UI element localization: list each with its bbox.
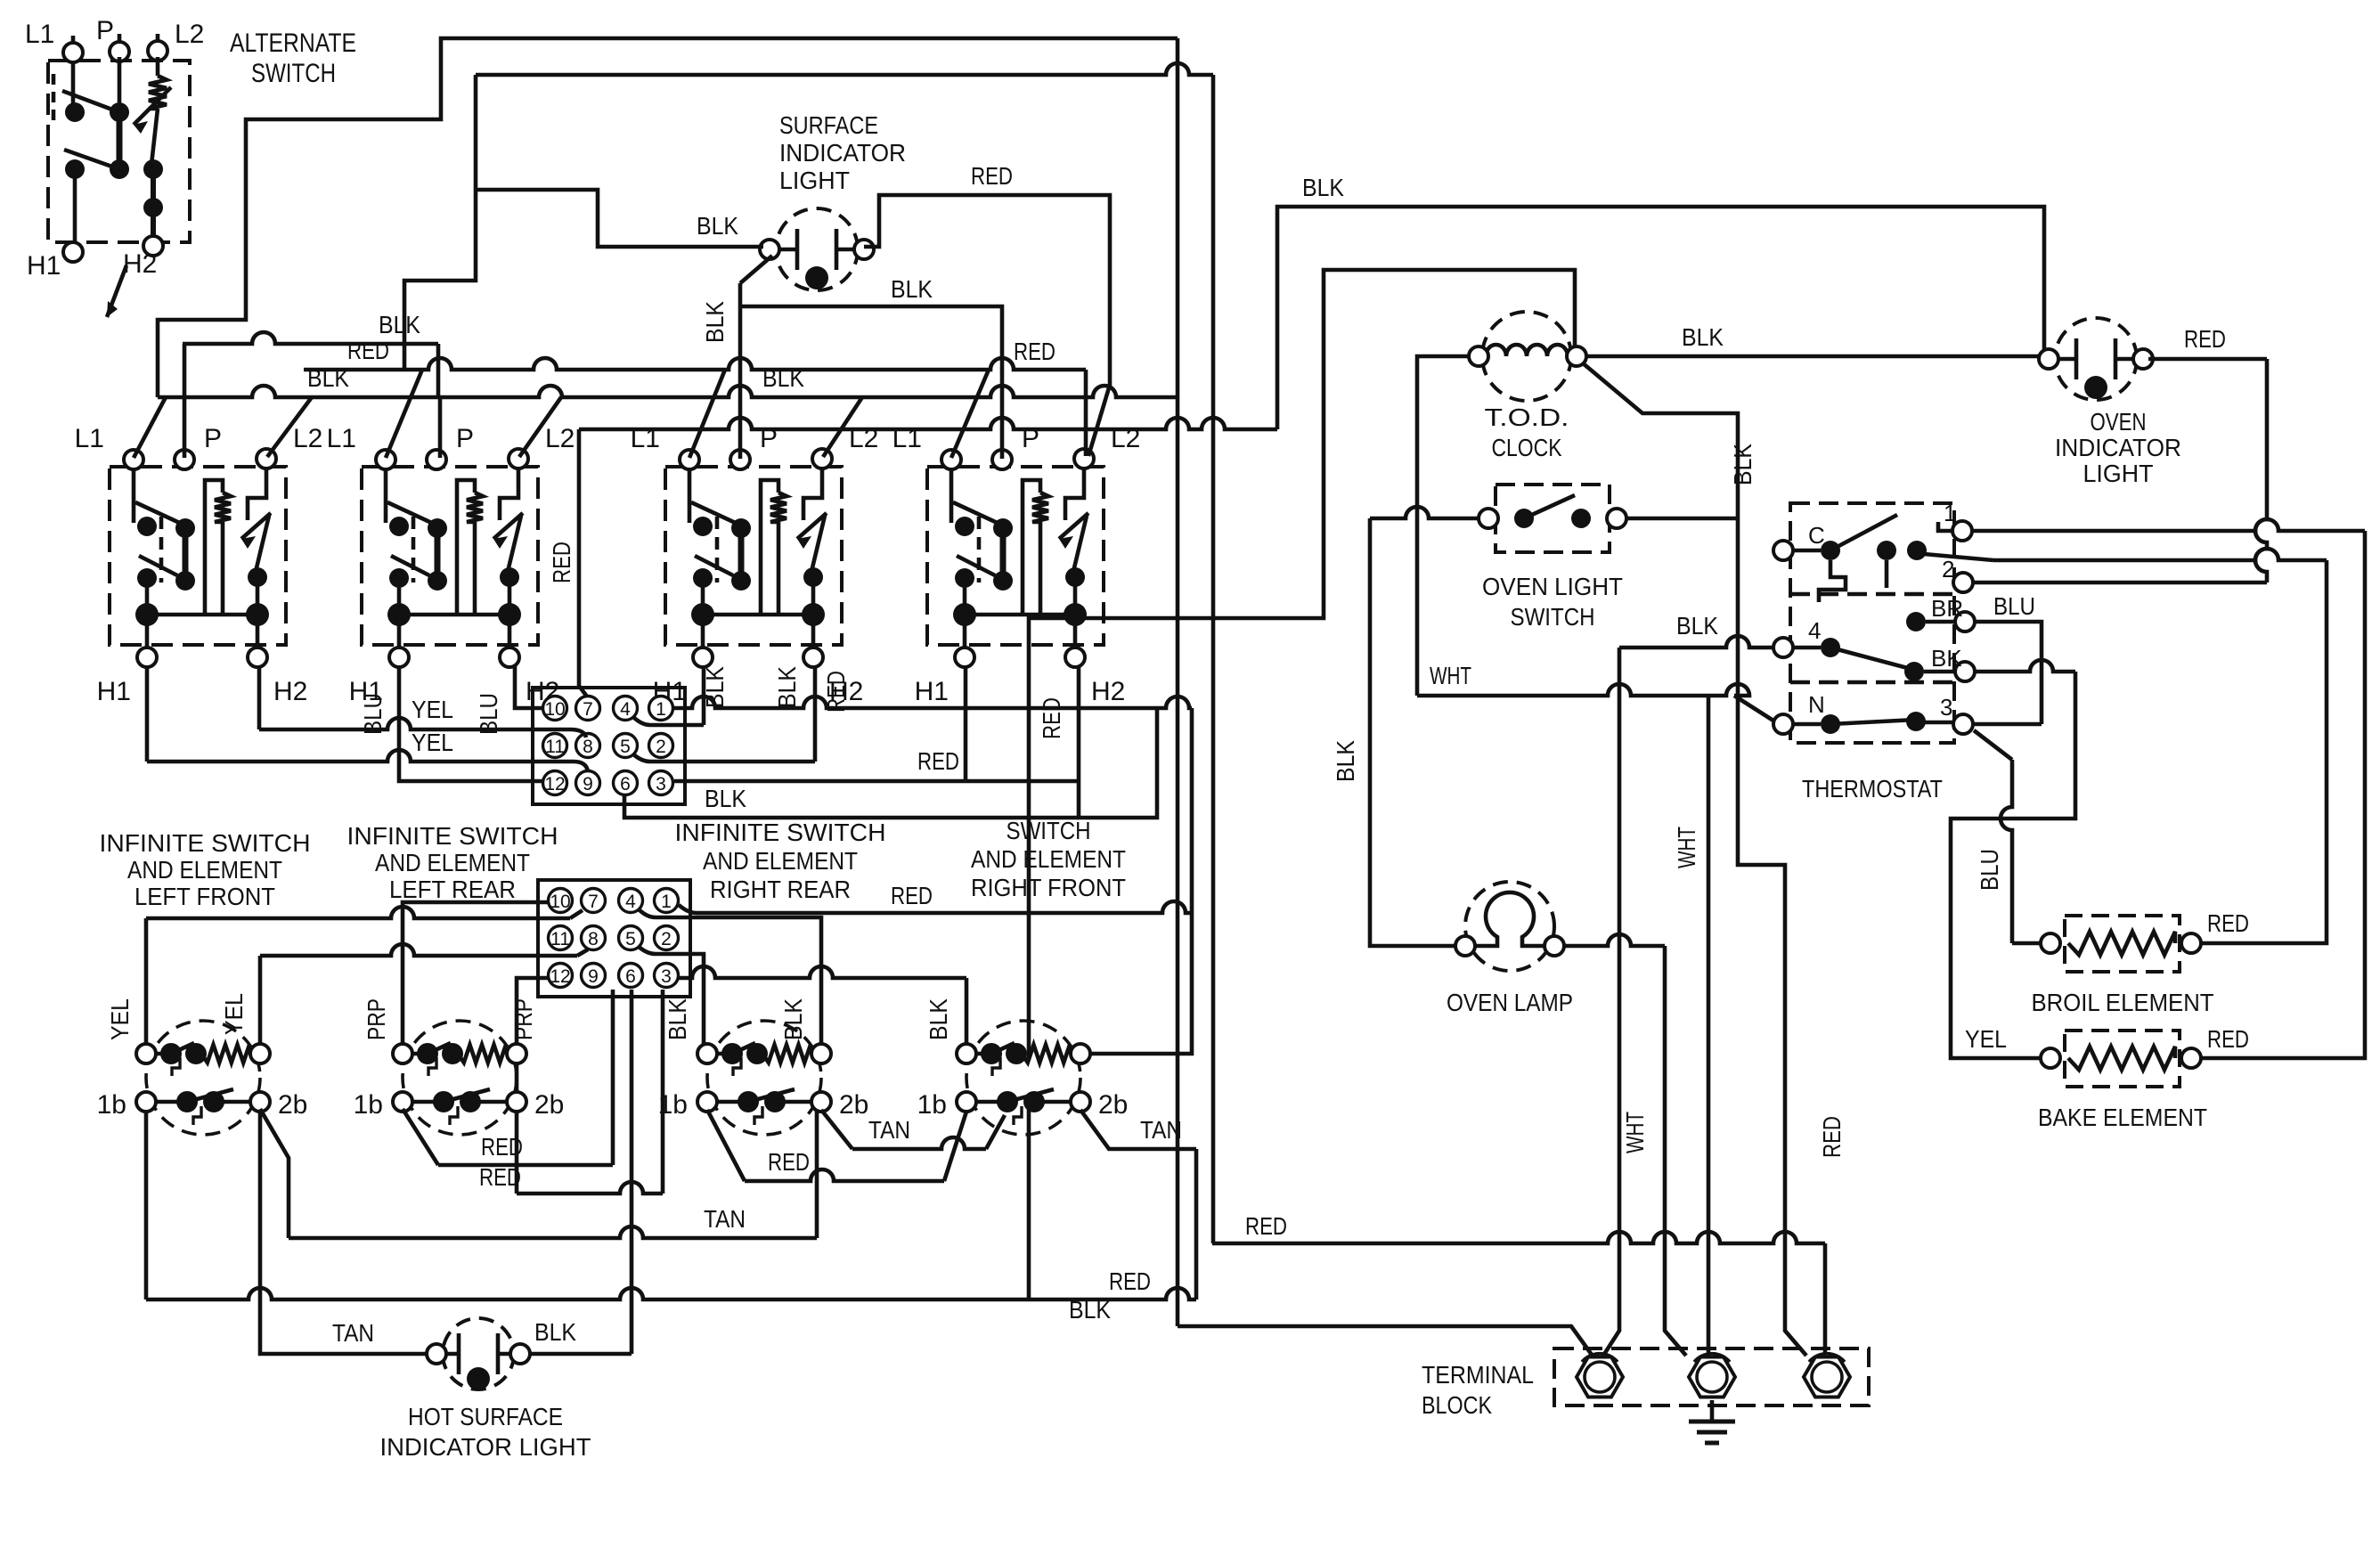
wire RED drop to pin 7 of connector 1: [579, 429, 587, 697]
label BLK vertical: [664, 998, 691, 1040]
svg-text:BLK: BLK: [1682, 323, 1724, 351]
svg-text:PRP: PRP: [509, 998, 537, 1040]
label BLK: [697, 212, 738, 240]
wire: short BLK bus y=386 (P of SW1 feed): [183, 332, 438, 458]
surface switch terminal labels L1 P L2 H1 H2: [75, 424, 1141, 706]
wire BLK y=232 from riser to oven indicator light: [1277, 207, 2044, 429]
label SWITCH AND ELEMENT RIGHT FRONT: [971, 817, 1126, 901]
svg-text:RED: RED: [479, 1163, 521, 1191]
svg-text:BROIL ELEMENT: BROIL ELEMENT: [2032, 989, 2214, 1016]
wire v1 BLK down to terminal block nut1: [1603, 648, 1619, 1356]
label RED: [1109, 1267, 1151, 1295]
svg-text:YEL: YEL: [412, 696, 453, 723]
svg-text:RED: RED: [971, 162, 1013, 190]
label PRP vertical: [509, 998, 537, 1040]
hot surface indicator light: [427, 1318, 530, 1390]
surface indicator light: [760, 208, 874, 290]
wire TAN: RR 2b to RF 1b: [821, 1110, 1005, 1149]
svg-text:RED: RED: [1038, 697, 1065, 739]
label THERMOSTAT: [1802, 775, 1943, 803]
svg-text:BLK: BLK: [701, 301, 729, 343]
connector block CB2 (elements): [538, 880, 690, 997]
svg-text:1b: 1b: [354, 1090, 383, 1120]
diagonal lead L1 SW4: [951, 370, 989, 458]
label BLU: [1993, 592, 2035, 620]
label RED: [768, 1148, 810, 1176]
svg-text:3: 3: [656, 774, 666, 794]
wire TAN: RF 2b to RED long run junction: [1080, 1110, 1196, 1300]
wire BLK: CB2 pin 5 to RR left terminal: [690, 954, 704, 1046]
svg-text:YEL: YEL: [412, 729, 453, 756]
wire y=482 RED feed line: [579, 418, 1277, 429]
svg-text:2: 2: [661, 929, 672, 949]
label BLK vertical: [925, 998, 952, 1040]
svg-text:BLK: BLK: [891, 275, 933, 303]
svg-text:H1: H1: [27, 251, 61, 281]
wire YEL: H1 of SW1 to pin 9: [147, 666, 588, 771]
label TAN: [1140, 1116, 1182, 1144]
label BLK vertical: [701, 301, 729, 343]
svg-text:11: 11: [550, 929, 570, 949]
wire H2 of SW4 drop + jog up to pin1 RED wire: [1079, 666, 1157, 818]
svg-text:LIGHT: LIGHT: [2083, 460, 2154, 487]
svg-text:WHT: WHT: [1673, 827, 1700, 868]
svg-text:L1: L1: [25, 20, 54, 49]
svg-text:BLK: BLK: [1332, 740, 1359, 782]
svg-text:BLU: BLU: [1993, 592, 2035, 620]
svg-text:AND ELEMENT: AND ELEMENT: [971, 845, 1126, 873]
label WHT vertical: [1621, 1112, 1649, 1153]
svg-text:INDICATOR: INDICATOR: [2055, 434, 2181, 461]
label BLK: [307, 364, 804, 392]
wire BK out: right, down, left, down to bake element (YEL): [1951, 660, 2075, 1058]
svg-text:INDICATOR: INDICATOR: [779, 139, 906, 167]
thermostat (dashed box): [1773, 503, 1975, 743]
label BLK vertical: [701, 666, 729, 708]
label RED: [2184, 325, 2226, 353]
label TAN: [332, 1319, 374, 1347]
svg-text:RED: RED: [1818, 1116, 1846, 1158]
label INFINITE SWITCH AND ELEMENT LEFT REAR: [347, 822, 558, 903]
wire H1 of SW4 drop to RED wire: [964, 666, 968, 781]
svg-text:LEFT FRONT: LEFT FRONT: [134, 883, 275, 910]
wire YEL: H2 of SW1 to pin 8: [259, 666, 586, 737]
label SURFACE INDICATOR LIGHT: [779, 111, 906, 194]
label T.O.D. CLOCK: [1485, 403, 1569, 461]
pointer arrow: [107, 265, 126, 317]
svg-text:INFINITE SWITCH: INFINITE SWITCH: [100, 829, 311, 857]
label RED: [891, 882, 933, 909]
wire YEL: LF right terminal up to CB2 pin 8: [260, 944, 588, 1046]
svg-text:4: 4: [1808, 617, 1821, 644]
svg-text:L2: L2: [545, 424, 575, 453]
label WHT: [1430, 662, 1471, 689]
label RED: [917, 747, 959, 775]
infinite surface switch SW4 right front: [927, 449, 1104, 667]
svg-text:5: 5: [620, 737, 631, 757]
wire YEL: LF left terminal up to CB2 pin 7: [146, 907, 583, 1046]
label HOT SURFACE INDICATOR LIGHT: [380, 1403, 591, 1461]
svg-text:RED: RED: [891, 882, 933, 909]
label BLK: [379, 311, 420, 338]
wire BLK: hot surface light right to CB2 pin 6 riser: [526, 990, 632, 1354]
diagonal lead L1 SW3: [689, 370, 725, 458]
label WHT vertical: [1673, 827, 1700, 868]
svg-text:2b: 2b: [534, 1090, 564, 1120]
oven indicator light: [2039, 318, 2153, 400]
svg-text:9: 9: [583, 774, 593, 794]
svg-text:BR: BR: [1931, 595, 1963, 622]
label PRP vertical: [363, 998, 390, 1040]
wire from clock left terminal down (WHT bus): [1417, 356, 1471, 696]
wire thermostat internal 2-dot out to broil element RED: [1924, 549, 2327, 943]
svg-text:INFINITE SWITCH: INFINITE SWITCH: [675, 819, 886, 846]
label RED vertical: [1038, 697, 1065, 739]
svg-text:1: 1: [661, 892, 672, 912]
label BLK vertical: [773, 666, 801, 708]
svg-text:6: 6: [620, 774, 631, 794]
svg-text:AND ELEMENT: AND ELEMENT: [375, 849, 530, 876]
combined infinite switch and element right rear: [697, 1021, 831, 1135]
svg-text:P: P: [204, 424, 222, 453]
label INFINITE SWITCH AND ELEMENT RIGHT REAR: [675, 819, 886, 903]
terminal block nut 1: [1577, 1354, 1623, 1397]
terminal block (dashed box): [1554, 1348, 1869, 1405]
wire 3 terminal out: [1972, 722, 2042, 727]
svg-text:BLU: BLU: [1976, 849, 2003, 891]
svg-text:RED: RED: [548, 542, 575, 583]
labels 1b 2b for right front: [917, 1090, 1129, 1120]
infinite surface switch SW2 left rear: [362, 449, 538, 667]
svg-text:P: P: [456, 424, 474, 453]
label OVEN LIGHT SWITCH: [1482, 573, 1623, 631]
label TAN: [704, 1205, 746, 1233]
svg-text:OVEN LIGHT: OVEN LIGHT: [1482, 573, 1623, 600]
label BLK: [1302, 174, 1344, 201]
oven lamp (dashed circle with filament loop): [1455, 882, 1564, 971]
svg-text:RED: RED: [1245, 1212, 1287, 1240]
label BLK: [891, 275, 933, 303]
svg-text:2: 2: [1942, 556, 1954, 583]
connector block CB1 (surface switches): [533, 688, 685, 804]
svg-text:BLK: BLK: [307, 364, 349, 392]
wire BLU from 3 down to broil element: [1974, 730, 2043, 943]
label BLU vertical: [359, 693, 387, 735]
svg-text:RIGHT FRONT: RIGHT FRONT: [971, 874, 1126, 901]
label RED: [481, 1133, 523, 1161]
svg-text:BLOCK: BLOCK: [1422, 1391, 1492, 1419]
svg-text:BAKE ELEMENT: BAKE ELEMENT: [2038, 1104, 2207, 1131]
svg-text:3: 3: [1940, 694, 1952, 721]
label BLU vertical: [475, 693, 502, 735]
wire oven light switch right terminal joins riser: [1626, 517, 1738, 521]
svg-text:1: 1: [1944, 500, 1956, 526]
wire: top bus line 1 (stepped down at left to BLK bus): [158, 38, 1178, 397]
wire BLK branch to P of SW4: [740, 306, 1002, 459]
svg-text:BLK: BLK: [1676, 612, 1718, 640]
label YEL: [412, 696, 453, 723]
WHT bus to thermostat N: [1417, 684, 1776, 722]
wire TAN: LF 2b diagonal down to bus, over to RR 2b: [260, 1109, 817, 1238]
svg-text:12: 12: [544, 774, 565, 794]
label RED: [479, 1163, 521, 1191]
svg-text:SWITCH: SWITCH: [1007, 817, 1091, 844]
svg-text:6: 6: [625, 966, 636, 987]
wire RED from oven indicator light right to thermostat 2: [2148, 359, 2267, 583]
label YEL: [412, 729, 453, 756]
label BLK vertical on riser: [1729, 444, 1756, 485]
svg-text:OVEN LAMP: OVEN LAMP: [1447, 989, 1573, 1016]
svg-text:BLK: BLK: [925, 998, 952, 1040]
svg-text:RED: RED: [2207, 909, 2249, 937]
wire: top bus line 1 vertical drop (right side, long): [1176, 38, 1180, 1326]
oven light switch (dashed box): [1479, 485, 1626, 552]
svg-text:L1: L1: [327, 424, 356, 453]
wire thermostat 1 to right edge and down to bake element RED: [1971, 519, 2365, 1058]
svg-text:WHT: WHT: [1430, 662, 1471, 689]
wire BLK from bus2 to surface indicator light left terminal: [476, 190, 763, 247]
svg-text:7: 7: [583, 699, 593, 720]
alternate switch labels: [25, 16, 204, 281]
svg-text:L2: L2: [175, 20, 204, 49]
svg-text:LIGHT: LIGHT: [779, 167, 850, 194]
svg-text:5: 5: [625, 929, 636, 949]
label RED: [971, 162, 1013, 190]
svg-text:BLK: BLK: [773, 666, 801, 708]
label BLK: [1069, 1296, 1111, 1324]
terminal block nut 3: [1804, 1354, 1850, 1397]
labels 1b 2b for left front: [97, 1090, 308, 1120]
wire TAN: LF 2b straight down to hot surface indicator light: [260, 1110, 431, 1354]
svg-text:2b: 2b: [278, 1090, 307, 1120]
svg-text:TAN: TAN: [704, 1205, 746, 1233]
svg-text:WHT: WHT: [1621, 1112, 1649, 1153]
svg-text:YEL: YEL: [106, 998, 134, 1040]
label BLU vertical: [1976, 849, 2003, 891]
svg-text:BLK: BLK: [664, 998, 691, 1040]
wire BR to 3 (BLU link): [1974, 622, 2042, 724]
svg-text:BLK: BLK: [762, 364, 804, 392]
svg-text:RED: RED: [2184, 325, 2226, 353]
svg-text:BLK: BLK: [1302, 174, 1344, 201]
wire from clock right terminal: BLK riser to oven light switch right: [1582, 363, 1738, 518]
combined infinite switch and element left front: [136, 1021, 270, 1135]
wire RED bottom bus to terminal block nut3: [1212, 1232, 1825, 1354]
label YEL vertical: [220, 993, 248, 1035]
infinite surface switch SW1 left front: [110, 449, 286, 667]
svg-text:YEL: YEL: [1965, 1025, 2007, 1053]
label RED: [347, 337, 389, 364]
label BLK vertical: [1332, 740, 1359, 782]
labels 1b 2b for left rear: [354, 1090, 565, 1120]
wire WHT from bus down through nut2 to ground: [1707, 696, 1711, 1372]
svg-text:1b: 1b: [97, 1090, 126, 1120]
svg-text:TERMINAL: TERMINAL: [1422, 1361, 1534, 1389]
svg-text:11: 11: [545, 737, 565, 757]
wire RED: LR 2b down, right, up to CB2: [517, 990, 663, 1194]
wire BLK bottom bus to terminal block nut1: [1178, 1326, 1592, 1355]
label RED vertical near nut3: [1818, 1116, 1846, 1158]
thermostat pin labels: [1808, 500, 1963, 721]
svg-text:LEFT REAR: LEFT REAR: [389, 876, 516, 903]
wire BLK: CB2 pin 4 to RR right terminal: [690, 917, 821, 1046]
wire BLK: pin 6 down and right: [624, 794, 1079, 818]
svg-text:BLK: BLK: [1069, 1296, 1111, 1324]
diagonal lead L1 SW2: [386, 370, 422, 458]
svg-text:THERMOSTAT: THERMOSTAT: [1802, 775, 1943, 803]
diagonal lead L2 SW2: [519, 397, 561, 457]
wire RED from light right terminal to L2 of SW4: [864, 195, 1110, 456]
svg-text:3: 3: [661, 966, 672, 987]
label RED: [1245, 1212, 1287, 1240]
svg-text:CLOCK: CLOCK: [1492, 434, 1562, 461]
svg-text:H2: H2: [1091, 677, 1125, 706]
svg-text:AND ELEMENT: AND ELEMENT: [127, 856, 282, 884]
label OVEN LAMP: [1447, 989, 1573, 1016]
svg-text:HOT SURFACE: HOT SURFACE: [408, 1403, 563, 1430]
svg-text:INFINITE SWITCH: INFINITE SWITCH: [347, 822, 558, 850]
svg-text:BLU: BLU: [359, 693, 387, 735]
wire BLK: pin 5 to H2 of SW3: [685, 666, 815, 762]
svg-text:10: 10: [544, 699, 565, 720]
diagonal lead L2 SW1: [267, 397, 312, 457]
svg-text:H1: H1: [915, 677, 949, 706]
svg-text:10: 10: [550, 892, 570, 912]
svg-text:C: C: [1808, 522, 1825, 549]
diagonal lead L2 SW3: [823, 397, 862, 457]
svg-text:8: 8: [588, 929, 599, 949]
wire PRP: LR left terminal up to CB2 pin 10: [403, 902, 549, 1046]
svg-text:H2: H2: [123, 249, 157, 279]
combined infinite switch and element left rear: [393, 1021, 526, 1135]
svg-text:2: 2: [656, 737, 666, 757]
wire: top bus line 2 (stepped down at left to RED bus): [404, 63, 1213, 370]
wire pilot drop from light left terminal to P of SW3 (BLK vertical): [740, 256, 772, 459]
svg-text:T.O.D.: T.O.D.: [1485, 403, 1569, 431]
svg-text:BLK: BLK: [534, 1318, 576, 1346]
label YEL: [1965, 1025, 2007, 1053]
combined infinite switch and element right front: [957, 1021, 1090, 1135]
svg-text:H2: H2: [273, 677, 307, 706]
label TAN: [868, 1116, 910, 1144]
svg-text:BLK: BLK: [779, 998, 807, 1040]
svg-text:4: 4: [620, 699, 631, 720]
svg-text:12: 12: [550, 966, 570, 987]
bake element: [2041, 1031, 2201, 1087]
label BLK vertical: [779, 998, 807, 1040]
wire RED: pin 3 right, jog to H2 SW4 riser: [674, 779, 1079, 784]
label BLK: [705, 785, 746, 812]
svg-text:RED: RED: [1109, 1267, 1151, 1295]
wire oven light switch left terminal to oven lamp: [1370, 507, 1480, 946]
wire BLK bus to thermostat terminal 4: [1619, 636, 1775, 648]
svg-text:BLK: BLK: [379, 311, 420, 338]
svg-text:TAN: TAN: [332, 1319, 374, 1347]
svg-text:BLK: BLK: [705, 785, 746, 812]
wire oven lamp right (WHT) down to terminal block nut2: [1563, 934, 1686, 1356]
svg-text:8: 8: [583, 737, 593, 757]
svg-text:PRP: PRP: [363, 998, 390, 1040]
label RED on bus: [1014, 338, 1056, 365]
broil element: [2041, 916, 2201, 972]
diagonal lead L1 SW1: [134, 397, 166, 458]
svg-text:7: 7: [588, 892, 599, 912]
svg-text:L2: L2: [293, 424, 322, 453]
svg-text:N: N: [1808, 691, 1825, 718]
label RED at broil: [2207, 909, 2249, 937]
svg-text:RIGHT REAR: RIGHT REAR: [710, 876, 851, 903]
svg-text:2b: 2b: [839, 1090, 868, 1120]
label RED vertical: [548, 542, 575, 583]
svg-text:1b: 1b: [917, 1090, 947, 1120]
ground symbol: [1689, 1400, 1735, 1443]
svg-text:P: P: [96, 16, 114, 45]
wire: P of SW2 drop: [438, 397, 443, 458]
label INFINITE SWITCH AND ELEMENT LEFT FRONT: [100, 829, 311, 910]
wire BLK: CB2 pin 3 to RF left terminal: [679, 966, 966, 1046]
wire: BLK bus y=446: [158, 386, 1178, 397]
alternate switch (reference symbol): [48, 34, 190, 262]
svg-text:BLK: BLK: [697, 212, 738, 240]
label OVEN INDICATOR LIGHT: [2055, 408, 2181, 487]
wire RED: pin 1 right to SW4 right-front feed: [672, 697, 1192, 1054]
svg-text:4: 4: [625, 892, 636, 912]
svg-text:1: 1: [656, 699, 666, 720]
wire: RED bus y=415: [304, 358, 1086, 456]
T.O.D. clock (dashed circle with coil): [1469, 312, 1586, 401]
wire RED: LR 1b diag to pin 9 riser: [403, 990, 613, 1165]
wire BLK: pin 4 to H1 of SW3: [685, 666, 704, 725]
label RED vertical: [822, 671, 850, 713]
svg-text:RED: RED: [917, 747, 959, 775]
svg-text:AND ELEMENT: AND ELEMENT: [703, 847, 858, 875]
svg-text:L1: L1: [75, 424, 104, 453]
svg-text:2b: 2b: [1098, 1090, 1128, 1120]
label BLK: [1676, 612, 1718, 640]
svg-text:9: 9: [588, 966, 599, 987]
infinite surface switch SW3 right rear: [665, 449, 842, 667]
label BAKE ELEMENT: [2038, 1104, 2207, 1131]
wire BLU: H1 of SW2 to pin 12: [399, 666, 543, 781]
svg-text:RED: RED: [2207, 1025, 2249, 1053]
svg-text:SURFACE: SURFACE: [779, 111, 878, 139]
svg-text:SWITCH: SWITCH: [1511, 603, 1595, 631]
label RED at bake: [2207, 1025, 2249, 1053]
wire clock feed upper y=303 and long left drop to RED bottom bus: [1029, 270, 1575, 1300]
svg-text:SWITCH: SWITCH: [251, 59, 336, 88]
label ALTERNATE SWITCH: [230, 29, 356, 88]
svg-text:BLK: BLK: [1729, 444, 1756, 485]
wire RED: CB2 pin 1 to right-front switch right terminal riser: [679, 901, 1192, 913]
svg-text:OVEN: OVEN: [2091, 408, 2147, 436]
wire riser continues down to terminal block nut3: [1738, 518, 1806, 1356]
label YEL vertical: [106, 998, 134, 1040]
svg-text:RED: RED: [347, 337, 389, 364]
svg-text:TAN: TAN: [1140, 1116, 1182, 1144]
svg-text:INDICATOR LIGHT: INDICATOR LIGHT: [380, 1433, 591, 1461]
wire RED: LF 1b down, long run right, up to RF TAN junction: [146, 1110, 1196, 1300]
wire PRP: LR right terminal/pin 12 riser: [517, 978, 550, 1094]
label BROIL ELEMENT: [2032, 989, 2214, 1016]
label BLK: [534, 1318, 576, 1346]
label BLK going right from clock: [1585, 354, 2045, 359]
label TERMINAL BLOCK: [1422, 1361, 1534, 1419]
svg-text:TAN: TAN: [868, 1116, 910, 1144]
svg-text:ALTERNATE: ALTERNATE: [230, 29, 356, 58]
label BLK: [1682, 323, 1724, 351]
svg-text:RED: RED: [1014, 338, 1056, 365]
labels 1b 2b for right rear: [658, 1090, 869, 1120]
